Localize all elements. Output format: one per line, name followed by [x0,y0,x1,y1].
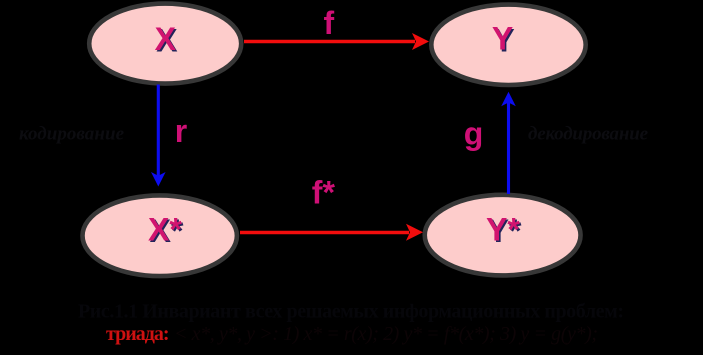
svg-text:< x*, y*, y >: 1) x* = r(x); 2: < x*, y*, y >: 1) x* = r(x); 2) y* = f*(… [174,323,598,345]
svg-text:g: g [464,115,484,151]
svg-text:f: f [324,5,335,41]
svg-text:Y: Y [492,21,513,57]
label X* [148,212,184,250]
node X (ellipse) [89,4,241,84]
svg-text:триада:: триада: [106,323,170,345]
svg-text:кодирование: кодирование [19,124,125,145]
label Y* [486,212,522,250]
arrow g (Y* to Y, blue) [501,92,516,194]
svg-text:f*: f* [312,174,336,210]
label X [155,21,179,59]
svg-text:X*: X* [148,212,182,248]
node Y* (ellipse) [425,195,581,276]
node Y (ellipse) [431,5,585,85]
arrow r (X to X*, blue) [151,85,166,187]
svg-text:Y*: Y* [486,212,520,248]
arrow f* (X* to Y*, red) [240,224,423,241]
node X* (ellipse) [83,195,237,276]
arrow f (X to Y, red) [244,33,429,50]
label Y [492,21,515,59]
svg-text:декодирование: декодирование [528,124,649,145]
svg-text:Рис.1.1 Инвариант всех решаемы: Рис.1.1 Инвариант всех решаемых информац… [78,301,624,323]
svg-text:r: r [175,113,187,149]
svg-text:X: X [155,21,177,57]
